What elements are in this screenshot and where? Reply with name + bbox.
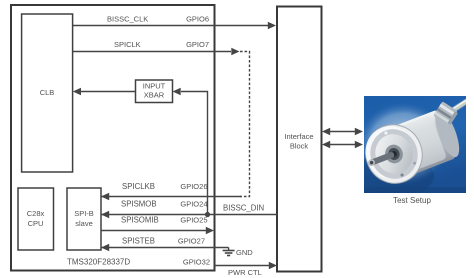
- svg-text:SPICLK: SPICLK: [114, 40, 141, 49]
- svg-text:CLB: CLB: [40, 88, 55, 97]
- svg-text:GPIO27: GPIO27: [178, 237, 205, 246]
- wire SPISTEB GPIO27: [101, 237, 229, 252]
- wire SPISMOB GPIO24 / BISSC_DIN: [101, 200, 277, 219]
- wire BISSC_CLK GPIO6: [73, 15, 276, 30]
- svg-text:BISSC_CLK: BISSC_CLK: [107, 15, 148, 24]
- svg-text:GPIO7: GPIO7: [186, 40, 209, 49]
- bidirectional arrow 2 Interface Block to encoder: [322, 141, 363, 148]
- svg-text:GND: GND: [236, 248, 253, 257]
- svg-text:BISSC_DIN: BISSC_DIN: [223, 204, 264, 213]
- svg-text:SPISMOB: SPISMOB: [121, 200, 157, 209]
- wire BISSC_DIN up to INPUT XBAR: [173, 88, 208, 215]
- dashed feedback wire SPICLK to SPICLKB: [240, 52, 250, 197]
- svg-text:GPIO26: GPIO26: [180, 182, 207, 191]
- svg-text:Block: Block: [290, 142, 309, 151]
- CLB block: [22, 14, 73, 172]
- SPI-B slave block: [67, 188, 101, 250]
- wire SPICLKB GPIO26: [101, 182, 241, 200]
- shadow below encoder: [350, 154, 434, 198]
- wire GPIO32 PWR CTL: [183, 258, 277, 278]
- svg-text:GPIO25: GPIO25: [180, 216, 207, 225]
- svg-text:SPICLKB: SPICLKB: [122, 182, 155, 191]
- wire INPUT XBAR to CLB: [73, 88, 136, 95]
- svg-text:SPI-B: SPI-B: [74, 209, 94, 218]
- svg-text:Test Setup: Test Setup: [393, 196, 431, 205]
- svg-text:TMS320F28337D: TMS320F28337D: [67, 258, 130, 267]
- wire SPICLK GPIO7: [73, 40, 240, 55]
- svg-text:Interface: Interface: [284, 132, 313, 141]
- INPUT XBAR block: [136, 80, 173, 103]
- svg-text:slave: slave: [75, 219, 93, 228]
- encoder body cylinder: [385, 106, 465, 178]
- front flange and face rings: [357, 116, 430, 191]
- shaft with screw: [367, 151, 395, 167]
- svg-text:SPISOMIB: SPISOMIB: [121, 216, 159, 225]
- wire SPISOMIB GPIO25: [101, 216, 214, 235]
- white glow around encoder: [356, 101, 450, 185]
- Interface Block: [277, 7, 322, 272]
- cable: [447, 101, 467, 114]
- svg-text:C28x: C28x: [27, 209, 45, 218]
- C28x CPU block: [18, 188, 54, 250]
- svg-text:CPU: CPU: [28, 219, 44, 228]
- svg-text:SPISTEB: SPISTEB: [122, 237, 155, 246]
- svg-text:INPUT: INPUT: [143, 82, 166, 91]
- svg-text:GPIO24: GPIO24: [180, 200, 207, 209]
- svg-text:XBAR: XBAR: [144, 91, 165, 100]
- bidirectional arrow 1 Interface Block to encoder: [322, 128, 363, 135]
- cable gland nut: [433, 101, 459, 126]
- svg-text:GPIO6: GPIO6: [186, 15, 209, 24]
- svg-text:GPIO32: GPIO32: [183, 258, 210, 267]
- node junction BISSC_DIN to INPUT XBAR: [205, 212, 210, 217]
- ground GND: [223, 248, 254, 258]
- svg-text:PWR CTL: PWR CTL: [228, 268, 262, 277]
- outer MCU box TMS320F28337D: [11, 5, 215, 271]
